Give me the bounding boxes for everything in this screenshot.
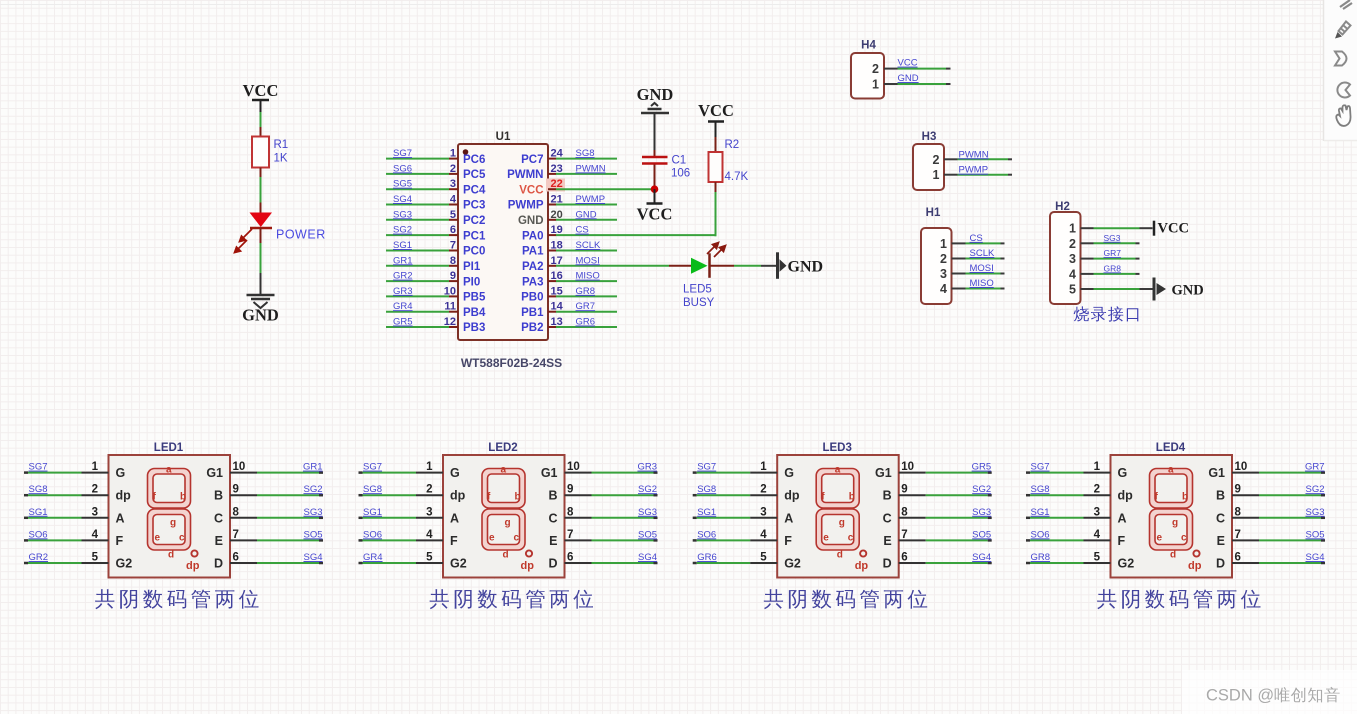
- svg-text:b: b: [849, 492, 855, 503]
- resistor R1: [252, 127, 269, 177]
- toolbar icon pencil: [1335, 22, 1351, 39]
- svg-text:8: 8: [450, 255, 456, 267]
- svg-text:A: A: [450, 511, 459, 525]
- svg-text:G: G: [1118, 466, 1128, 480]
- wire LED3 pin 2: [693, 494, 778, 497]
- svg-text:PB2: PB2: [521, 322, 543, 334]
- svg-text:SG7: SG7: [29, 462, 48, 473]
- svg-text:a: a: [1168, 465, 1174, 476]
- wire U1 pin 13: [548, 326, 617, 328]
- svg-text:3: 3: [940, 267, 947, 281]
- svg-text:3: 3: [426, 506, 432, 518]
- LED1 seven-segment glyph: [148, 469, 198, 557]
- svg-text:9: 9: [1235, 484, 1241, 496]
- svg-text:MOSI: MOSI: [970, 263, 994, 274]
- svg-text:10: 10: [1235, 461, 1248, 473]
- svg-text:GR3: GR3: [637, 462, 657, 473]
- svg-text:a: a: [166, 465, 172, 476]
- wire LED4 pin 6: [1232, 562, 1325, 564]
- svg-text:SO5: SO5: [303, 529, 322, 540]
- wire U1 pin 22: [548, 188, 655, 190]
- svg-text:SG2: SG2: [638, 484, 657, 495]
- LED4 segment letters: [1155, 465, 1202, 573]
- svg-text:LED4: LED4: [1156, 442, 1186, 454]
- wire LED4 pin 8: [1232, 517, 1325, 519]
- svg-text:SG1: SG1: [1031, 507, 1050, 518]
- svg-text:PB4: PB4: [463, 307, 486, 319]
- wire U1 pin 15: [548, 295, 617, 297]
- svg-text:G: G: [784, 466, 794, 480]
- svg-text:10: 10: [567, 461, 580, 473]
- svg-text:4: 4: [450, 194, 457, 206]
- svg-text:4: 4: [92, 529, 99, 541]
- connector H1 body: [921, 228, 952, 304]
- svg-text:d: d: [168, 550, 174, 561]
- svg-text:3: 3: [1094, 506, 1100, 518]
- svg-text:g: g: [839, 518, 845, 529]
- svg-text:GR2: GR2: [29, 552, 49, 563]
- wire LED4 pin 7: [1232, 539, 1325, 541]
- svg-text:D: D: [548, 557, 557, 571]
- svg-text:GR5: GR5: [393, 317, 413, 328]
- svg-text:G1: G1: [541, 466, 558, 480]
- svg-text:GR5: GR5: [972, 462, 992, 473]
- svg-text:4: 4: [1069, 267, 1076, 281]
- toolbar icon (partial pencil): [1340, 0, 1352, 9]
- svg-text:PC1: PC1: [463, 230, 486, 242]
- svg-text:E: E: [1217, 534, 1225, 548]
- wire U1 pin 7 (SG1): [386, 250, 458, 252]
- wire H4 pin 2: [884, 68, 951, 70]
- wire H2 pin 4: [1081, 273, 1140, 275]
- svg-text:G1: G1: [206, 466, 223, 480]
- svg-text:9: 9: [233, 484, 239, 496]
- svg-text:c: c: [179, 533, 185, 544]
- wire U1 pin 19: [548, 234, 716, 236]
- svg-text:7: 7: [450, 240, 456, 252]
- svg-text:2: 2: [933, 153, 940, 167]
- svg-text:3: 3: [92, 506, 98, 518]
- svg-text:GR4: GR4: [393, 301, 413, 312]
- wire LED1 pin 10: [230, 472, 323, 474]
- svg-text:LED1: LED1: [154, 442, 184, 454]
- wire LED4 pin 5: [1026, 562, 1111, 565]
- svg-text:SG1: SG1: [697, 507, 716, 518]
- svg-text:g: g: [505, 518, 511, 529]
- wire LED4 pin 2: [1026, 494, 1111, 497]
- wire LED1 pin 2: [24, 494, 109, 497]
- svg-text:G2: G2: [450, 557, 467, 571]
- wire LED1 pin 3: [24, 517, 109, 520]
- svg-text:SG2: SG2: [1305, 484, 1324, 495]
- power flag VCC (R2): [698, 101, 734, 137]
- svg-text:1: 1: [940, 237, 947, 251]
- svg-text:2: 2: [872, 62, 879, 76]
- wire LED1 pin 6: [230, 562, 323, 564]
- svg-text:21: 21: [551, 194, 563, 206]
- svg-text:SG8: SG8: [1031, 484, 1050, 495]
- LED3 segment letters: [821, 465, 868, 573]
- svg-text:2: 2: [450, 163, 456, 175]
- wire LED2 pin 4: [359, 539, 444, 542]
- svg-text:F: F: [1118, 534, 1126, 548]
- svg-text:d: d: [503, 550, 509, 561]
- wire LED4 pin 1: [1026, 471, 1111, 474]
- svg-text:H1: H1: [926, 207, 941, 219]
- svg-text:b: b: [515, 492, 521, 503]
- wire U1 pin 4 (SG4): [386, 204, 458, 206]
- svg-text:PWMN: PWMN: [959, 149, 989, 160]
- svg-text:8: 8: [233, 506, 240, 518]
- svg-text:GR8: GR8: [576, 286, 596, 297]
- svg-text:4: 4: [940, 282, 947, 296]
- svg-text:SO6: SO6: [1031, 529, 1050, 540]
- wire U1 pin 16: [548, 280, 617, 282]
- wire LED2 pin 9: [565, 494, 658, 496]
- wire U1 pin 18: [548, 250, 617, 252]
- svg-text:GND: GND: [637, 85, 674, 104]
- svg-text:E: E: [549, 534, 557, 548]
- svg-text:dp: dp: [450, 489, 466, 503]
- svg-text:SG2: SG2: [303, 484, 322, 495]
- svg-text:1K: 1K: [274, 153, 288, 165]
- svg-text:4: 4: [426, 529, 433, 541]
- svg-text:c: c: [1181, 533, 1187, 544]
- svg-text:VCC: VCC: [519, 184, 543, 196]
- wire U1 pin 23: [548, 173, 617, 175]
- svg-text:10: 10: [901, 461, 914, 473]
- svg-text:6: 6: [450, 224, 456, 236]
- wire LED4 pin 9: [1232, 494, 1325, 496]
- svg-text:SG3: SG3: [393, 209, 412, 220]
- wire U1 pin 12 (GR5): [386, 326, 458, 328]
- svg-text:PC7: PC7: [521, 154, 543, 166]
- svg-text:R1: R1: [274, 139, 289, 151]
- svg-text:18: 18: [551, 240, 563, 252]
- svg-text:SG7: SG7: [363, 462, 382, 473]
- wire VCC to R1: [260, 112, 262, 127]
- chip U1 body WT588F02B-24SS: [458, 144, 548, 340]
- svg-text:H3: H3: [922, 131, 937, 143]
- svg-text:SO5: SO5: [972, 529, 991, 540]
- wire LED1 pin 5: [24, 562, 109, 565]
- svg-text:24: 24: [551, 148, 564, 160]
- svg-text:C: C: [883, 511, 892, 525]
- svg-text:10: 10: [233, 461, 246, 473]
- wire LED2 pin 6: [565, 562, 658, 564]
- svg-text:2: 2: [1069, 237, 1076, 251]
- wire LED5 to GND: [734, 265, 776, 267]
- wire H2 pin 1 to VCC: [1081, 227, 1153, 229]
- ground GND (above C1): [637, 85, 674, 150]
- svg-text:dp: dp: [1188, 560, 1202, 572]
- svg-text:SG7: SG7: [1031, 462, 1050, 473]
- svg-text:PWMP: PWMP: [576, 194, 606, 205]
- svg-text:GND: GND: [788, 258, 824, 275]
- svg-text:SG8: SG8: [363, 484, 382, 495]
- svg-text:PC5: PC5: [463, 169, 486, 181]
- svg-text:PC0: PC0: [463, 246, 485, 258]
- svg-text:4.7K: 4.7K: [725, 171, 749, 183]
- svg-text:e: e: [823, 533, 829, 544]
- wire H2 pin 5 to GND: [1081, 288, 1153, 290]
- svg-text:PB3: PB3: [463, 322, 485, 334]
- svg-text:1: 1: [933, 168, 940, 182]
- svg-text:9: 9: [901, 484, 907, 496]
- wire R1 to LED: [260, 177, 262, 203]
- wire U1 pin 3 (SG5): [386, 188, 458, 190]
- wire LED2 pin 1: [359, 471, 444, 474]
- svg-text:2: 2: [1094, 484, 1100, 496]
- svg-text:F: F: [784, 534, 792, 548]
- svg-text:1: 1: [1069, 222, 1076, 236]
- wire LED3 pin 7: [899, 539, 992, 541]
- wire LED1 pin 8: [230, 517, 323, 519]
- svg-text:3: 3: [450, 178, 456, 190]
- svg-text:GR6: GR6: [697, 552, 717, 563]
- LED3 seven-segment glyph: [816, 469, 866, 557]
- svg-text:17: 17: [551, 255, 563, 267]
- svg-text:PB0: PB0: [521, 292, 543, 304]
- svg-text:SO5: SO5: [1305, 529, 1324, 540]
- wire H3 pin 2: [944, 158, 1012, 160]
- svg-text:SG7: SG7: [393, 148, 412, 159]
- label 烧录接口: [1074, 306, 1139, 322]
- svg-text:e: e: [1157, 533, 1163, 544]
- svg-text:8: 8: [567, 506, 574, 518]
- svg-text:H4: H4: [861, 40, 876, 52]
- connector H3 body: [913, 144, 944, 190]
- wire LED2 pin 7: [565, 539, 658, 541]
- svg-text:F: F: [450, 534, 458, 548]
- svg-text:20: 20: [551, 209, 563, 221]
- svg-text:5: 5: [426, 552, 433, 564]
- svg-text:SG1: SG1: [29, 507, 48, 518]
- svg-text:15: 15: [551, 285, 563, 297]
- svg-text:SG8: SG8: [697, 484, 716, 495]
- toolbar icon arc-C: [1337, 83, 1350, 98]
- svg-text:SG4: SG4: [638, 552, 657, 563]
- svg-text:dp: dp: [186, 560, 200, 572]
- svg-text:dp: dp: [855, 560, 869, 572]
- svg-text:b: b: [1182, 492, 1188, 503]
- svg-text:CS: CS: [576, 225, 589, 236]
- wire LED1 pin 7: [230, 539, 323, 541]
- svg-text:PWMP: PWMP: [508, 200, 544, 212]
- label 共阴数码管两位 (LED1): [95, 589, 258, 609]
- connector H4 body: [851, 53, 884, 99]
- svg-text:dp: dp: [116, 489, 132, 503]
- ground GND (LED5): [778, 252, 824, 278]
- wire H1 pin 4: [952, 288, 1005, 290]
- svg-text:SO6: SO6: [697, 529, 716, 540]
- wire LED3 pin 9: [899, 494, 992, 496]
- svg-text:11: 11: [444, 301, 456, 313]
- svg-text:SG4: SG4: [393, 194, 412, 205]
- svg-text:SG8: SG8: [29, 484, 48, 495]
- svg-text:GR8: GR8: [1104, 263, 1122, 273]
- wire U1 pin 14: [548, 311, 617, 313]
- svg-text:D: D: [1216, 557, 1225, 571]
- wire U1 pin 17: [548, 265, 669, 267]
- svg-text:GR7: GR7: [1305, 462, 1325, 473]
- svg-text:6: 6: [567, 552, 573, 564]
- svg-text:POWER: POWER: [276, 228, 326, 242]
- LED POWER: [235, 203, 273, 253]
- svg-text:F: F: [116, 534, 124, 548]
- svg-text:14: 14: [551, 301, 564, 313]
- wire LED2 pin 10: [565, 472, 658, 474]
- display LED1 body: [109, 455, 231, 578]
- svg-text:SO5: SO5: [638, 529, 657, 540]
- svg-text:GR4: GR4: [363, 552, 383, 563]
- LED2 segment letters: [487, 465, 534, 573]
- top hairline: [0, 4, 1324, 6]
- svg-text:dp: dp: [521, 560, 535, 572]
- svg-text:PWMN: PWMN: [507, 169, 543, 181]
- svg-text:C: C: [548, 511, 557, 525]
- wire LED to GND: [260, 243, 262, 273]
- svg-text:B: B: [883, 489, 892, 503]
- wire U1 pin 21: [548, 204, 617, 206]
- wire LED2 pin 5: [359, 562, 444, 565]
- svg-text:LED2: LED2: [488, 442, 517, 454]
- wire H1 pin 3: [952, 273, 1005, 275]
- svg-text:10: 10: [444, 285, 456, 297]
- svg-text:1: 1: [872, 78, 879, 92]
- svg-text:B: B: [548, 489, 557, 503]
- svg-text:6: 6: [1235, 552, 1241, 564]
- svg-text:PB1: PB1: [521, 307, 544, 319]
- svg-text:D: D: [883, 557, 892, 571]
- svg-text:LED3: LED3: [822, 442, 851, 454]
- svg-text:5: 5: [450, 209, 456, 221]
- svg-text:106: 106: [671, 168, 690, 180]
- svg-text:12: 12: [444, 316, 456, 328]
- svg-text:22: 22: [551, 178, 563, 190]
- svg-text:CS: CS: [970, 233, 983, 244]
- svg-text:1: 1: [450, 148, 456, 160]
- svg-text:SG4: SG4: [1305, 552, 1324, 563]
- svg-text:C: C: [1216, 511, 1225, 525]
- display LED2 body: [443, 455, 565, 578]
- svg-text:WT588F02B-24SS: WT588F02B-24SS: [461, 356, 562, 370]
- wire H2 pin 2: [1081, 242, 1140, 244]
- svg-text:1: 1: [760, 461, 767, 473]
- wire U1 pin 6 (SG2): [386, 234, 458, 236]
- display LED3 body: [777, 455, 899, 578]
- svg-text:6: 6: [233, 552, 239, 564]
- wire LED3 pin 5: [693, 562, 778, 565]
- svg-text:e: e: [155, 533, 161, 544]
- svg-text:1: 1: [426, 461, 433, 473]
- svg-text:6: 6: [901, 552, 907, 564]
- wire LED3 pin 8: [899, 517, 992, 519]
- svg-text:7: 7: [1235, 529, 1241, 541]
- svg-text:U1: U1: [496, 131, 511, 143]
- power flag VCC (H2): [1154, 221, 1189, 237]
- svg-text:19: 19: [551, 224, 563, 236]
- resistor R2: [709, 137, 723, 192]
- LED2 seven-segment glyph: [482, 469, 532, 557]
- svg-text:SO6: SO6: [363, 529, 382, 540]
- LED1 segment letters: [153, 465, 200, 573]
- svg-text:g: g: [1172, 518, 1178, 529]
- wire LED1 pin 4: [24, 539, 109, 542]
- junction dot (pin22/C1/VCC): [651, 185, 659, 193]
- svg-text:SG3: SG3: [1305, 507, 1324, 518]
- svg-text:2: 2: [426, 484, 432, 496]
- svg-text:GND: GND: [898, 73, 919, 84]
- svg-text:PC4: PC4: [463, 184, 486, 196]
- svg-text:PC3: PC3: [463, 200, 485, 212]
- wire LED3 pin 4: [693, 539, 778, 542]
- svg-text:SCLK: SCLK: [576, 240, 601, 251]
- svg-text:GR7: GR7: [1104, 248, 1122, 258]
- wire LED3 pin 1: [693, 471, 778, 474]
- svg-text:PA3: PA3: [522, 276, 544, 288]
- svg-text:5: 5: [1069, 283, 1076, 297]
- svg-text:PA1: PA1: [522, 246, 544, 258]
- svg-text:PI0: PI0: [463, 276, 480, 288]
- wire LED1 pin 9: [230, 494, 323, 496]
- label 共阴数码管两位 (LED3): [764, 589, 927, 609]
- power flag VCC (below junction): [637, 189, 673, 223]
- svg-text:a: a: [501, 465, 507, 476]
- svg-text:GND: GND: [518, 215, 544, 227]
- svg-text:R2: R2: [725, 139, 740, 151]
- svg-text:GR1: GR1: [303, 462, 323, 473]
- wire H4 pin 1: [884, 83, 951, 85]
- svg-text:C: C: [214, 511, 223, 525]
- svg-text:7: 7: [233, 529, 239, 541]
- wire LED3 pin 6: [899, 562, 992, 564]
- svg-text:PWMN: PWMN: [576, 163, 606, 174]
- wire LED2 pin 8: [565, 517, 658, 519]
- svg-text:2: 2: [760, 484, 766, 496]
- svg-text:GND: GND: [1172, 283, 1204, 299]
- svg-text:VCC: VCC: [243, 81, 279, 100]
- svg-text:3: 3: [1069, 252, 1076, 266]
- svg-text:c: c: [514, 533, 520, 544]
- svg-text:2: 2: [940, 252, 947, 266]
- ground GND (power LED): [242, 273, 279, 325]
- svg-text:E: E: [215, 534, 223, 548]
- watermark backdrop: [1182, 670, 1357, 714]
- wire H3 pin 1: [944, 174, 1012, 176]
- LED5 BUSY: [669, 243, 734, 278]
- wire U1 pin 5 (SG3): [386, 219, 458, 221]
- svg-text:c: c: [848, 533, 854, 544]
- svg-text:GR3: GR3: [393, 286, 413, 297]
- svg-text:GR8: GR8: [1031, 552, 1051, 563]
- svg-text:g: g: [170, 518, 176, 529]
- svg-text:MISO: MISO: [970, 278, 994, 289]
- svg-text:G2: G2: [784, 557, 801, 571]
- svg-text:SG4: SG4: [972, 552, 991, 563]
- svg-text:SG1: SG1: [393, 240, 412, 251]
- svg-text:MISO: MISO: [576, 271, 600, 282]
- svg-text:VCC: VCC: [898, 58, 918, 69]
- wire U1 pin 24: [548, 158, 617, 160]
- svg-text:4: 4: [760, 529, 767, 541]
- svg-text:GR6: GR6: [576, 317, 596, 328]
- svg-text:dp: dp: [784, 489, 800, 503]
- svg-text:SG8: SG8: [576, 148, 595, 159]
- svg-text:A: A: [1118, 511, 1127, 525]
- svg-text:B: B: [214, 489, 223, 503]
- svg-text:SG3: SG3: [303, 507, 322, 518]
